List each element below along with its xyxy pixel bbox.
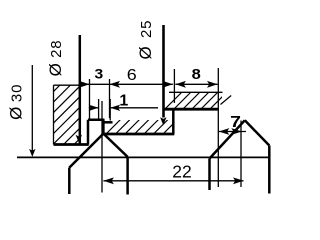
svg-text:22: 22 bbox=[172, 161, 191, 181]
svg-text:6: 6 bbox=[127, 66, 137, 84]
svg-text:8: 8 bbox=[192, 67, 201, 83]
svg-text:3: 3 bbox=[94, 67, 103, 82]
svg-text:Ø25: Ø25 bbox=[136, 20, 155, 60]
svg-text:Ø30: Ø30 bbox=[7, 84, 26, 120]
svg-text:1: 1 bbox=[119, 92, 128, 109]
svg-text:7: 7 bbox=[230, 113, 241, 131]
svg-text:Ø28: Ø28 bbox=[46, 40, 65, 77]
